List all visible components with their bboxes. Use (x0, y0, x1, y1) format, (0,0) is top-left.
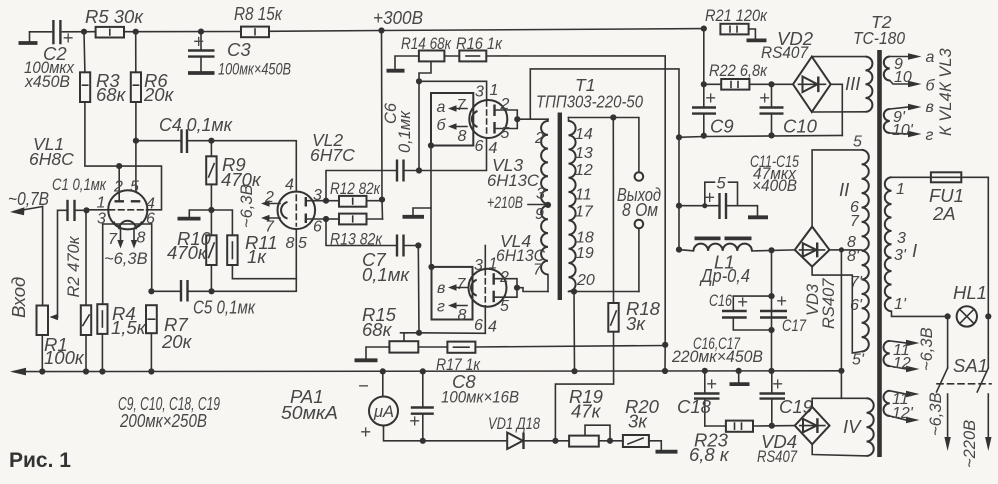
svg-text:RS407: RS407 (761, 44, 809, 62)
svg-text:7: 7 (457, 97, 467, 114)
svg-text:1: 1 (896, 181, 905, 198)
T2 winding I (885, 177, 892, 311)
svg-text:1: 1 (490, 82, 499, 99)
svg-text:68к: 68к (96, 84, 127, 105)
node (R22/C10/VD2) (768, 81, 774, 87)
T2 winding 9-10 (884, 57, 890, 81)
svg-text:100к: 100к (44, 347, 85, 368)
wire R6 to C4 node and VL1 pin5 (135, 102, 137, 191)
svg-text:RS407: RS407 (757, 448, 798, 466)
svg-text:68к: 68к (362, 319, 393, 340)
svg-text:+: + (705, 87, 716, 108)
wire secondary bottom pin20 (569, 291, 639, 293)
svg-text:10': 10' (892, 122, 914, 139)
cathode bus down (430, 146, 432, 267)
winding IV of T2 (867, 398, 874, 456)
svg-text:20к: 20к (161, 331, 193, 352)
svg-text:8: 8 (458, 307, 467, 324)
svg-text:ТС-180: ТС-180 (853, 28, 905, 48)
resistor R17 (447, 342, 475, 353)
svg-text:3': 3' (894, 247, 907, 264)
svg-text:III: III (845, 73, 860, 94)
heater box VL3 (431, 93, 473, 146)
capacitor C7 (396, 235, 398, 257)
svg-text:К VL3: К VL3 (937, 48, 955, 92)
wire +300V rail to R21 (382, 29, 704, 31)
svg-text:0,1мк: 0,1мк (396, 110, 414, 153)
svg-text:R2 470к: R2 470к (65, 235, 83, 297)
node (pin20/rail drop) (571, 288, 577, 294)
svg-text:Вход: Вход (8, 277, 29, 318)
wire secondary top to output (569, 118, 639, 173)
resistor R8 (241, 27, 269, 38)
node (C16 top) (768, 293, 774, 299)
svg-text:+: + (759, 87, 770, 108)
svg-text:7: 7 (457, 276, 467, 293)
svg-text:1,5к: 1,5к (111, 317, 147, 338)
svg-text:6: 6 (146, 211, 155, 228)
node (VL2 plate6/C7) (323, 216, 329, 222)
main rail (14, 370, 841, 373)
wire input down to R1 (42, 207, 44, 306)
heater box VL4 (432, 267, 473, 320)
T2 winding 11'-12' (884, 391, 890, 416)
capacitor C19 (771, 371, 773, 393)
svg-text:SA1: SA1 (953, 355, 988, 376)
svg-text:5: 5 (853, 134, 862, 151)
wire VL4 grid (419, 332, 485, 335)
node (VL3 grid top) (416, 78, 422, 84)
svg-text:б: б (437, 117, 447, 134)
svg-text:7: 7 (533, 262, 543, 279)
node (C16 bottom) (768, 327, 774, 333)
wire plate link to pin4 (119, 166, 161, 210)
wire VD4 top to rail and winding IV (812, 398, 866, 407)
wire R11 top (211, 210, 232, 235)
ground (R15) (355, 358, 378, 362)
VL1 cathode line (103, 223, 152, 225)
svg-text:−: − (358, 375, 369, 396)
resistor R18 (612, 118, 614, 304)
node (R18 top) (610, 114, 616, 120)
node (cathode bus VL3) (428, 142, 434, 148)
ground (R21 right) (749, 29, 756, 39)
wire C4 left (136, 140, 181, 142)
svg-text:+300В: +300В (373, 7, 423, 28)
svg-text:6: 6 (313, 219, 322, 236)
node (C2/R5/R3) (81, 29, 87, 35)
svg-text:а: а (437, 99, 446, 116)
ground (C2 left) (29, 32, 31, 42)
svg-text:RS407: RS407 (820, 278, 838, 329)
wire to ground (189, 210, 211, 217)
svg-text:6Н13С: 6Н13С (487, 172, 539, 190)
svg-text:+: + (360, 421, 371, 442)
rectifier VD2 (793, 57, 831, 112)
resistor R3 (83, 32, 86, 73)
resistor R21 (720, 24, 748, 35)
svg-text:220мк×450В: 220мк×450В (671, 348, 763, 366)
svg-text:R21 120к: R21 120к (705, 7, 768, 25)
svg-text:R12 82к: R12 82к (330, 180, 381, 198)
svg-text:С1 0,1мк: С1 0,1мк (52, 176, 107, 194)
svg-text:2: 2 (499, 269, 509, 286)
node (L1/C16) (768, 247, 774, 253)
resistor R22 (704, 83, 721, 85)
svg-text:6Н7С: 6Н7С (310, 145, 355, 165)
svg-text:5: 5 (501, 125, 510, 142)
svg-text:+: + (193, 31, 204, 52)
svg-text:С10: С10 (783, 116, 818, 137)
svg-text:1к: 1к (247, 246, 267, 267)
choke L1 (679, 250, 694, 251)
capacitors C11-C15 (679, 205, 719, 207)
svg-text:+: + (772, 373, 783, 394)
wire winding I bottom (892, 311, 948, 316)
svg-text:100мк×450В: 100мк×450В (218, 61, 291, 79)
svg-text:R5 30к: R5 30к (85, 6, 144, 27)
node (R12 right) (379, 197, 385, 203)
node +300V (378, 27, 384, 33)
svg-text:г: г (926, 127, 934, 144)
resistor R11 (227, 235, 237, 265)
diode VD1 (507, 433, 523, 450)
T2 core (877, 50, 882, 457)
svg-text:3к: 3к (626, 313, 646, 334)
winding III of T2 (812, 56, 866, 58)
node (C17 rail) (768, 368, 774, 374)
svg-text:R8 15к: R8 15к (234, 3, 283, 24)
wire R5 to C3 node (124, 31, 241, 33)
svg-text:1: 1 (97, 195, 106, 212)
VL2 heater arrows 2,7 (265, 203, 280, 205)
svg-text:HL1: HL1 (953, 282, 987, 303)
svg-text:С16: С16 (709, 292, 733, 310)
wire R14-R16 (444, 55, 459, 57)
svg-text:+: + (409, 410, 420, 431)
T1 secondary coil (568, 118, 570, 122)
svg-text:R22 6,8к: R22 6,8к (709, 62, 768, 80)
svg-text:С9: С9 (710, 116, 734, 137)
ground (R14 left) (395, 56, 419, 69)
fuse FU1 (892, 176, 931, 178)
svg-text:С18: С18 (677, 396, 712, 417)
wire C2 left (30, 31, 52, 33)
wire R3 to VL1 plate pin2 (85, 102, 119, 166)
svg-text:С5 0,1мк: С5 0,1мк (193, 297, 256, 318)
svg-text:1': 1' (894, 296, 907, 313)
svg-text:17: 17 (575, 204, 594, 221)
node (cathode bus VL4 box) (428, 264, 434, 270)
svg-text:С4 0,1мк: С4 0,1мк (159, 114, 233, 135)
wire R15-R17 (418, 346, 447, 348)
wire R21 node down to R22 (703, 29, 705, 85)
svg-text:+: + (776, 290, 787, 311)
node (C5/R7/cathode) (148, 288, 154, 294)
wire C5 left (151, 290, 180, 292)
capacitor C9 (703, 84, 705, 107)
svg-text:R16 1к: R16 1к (456, 35, 503, 53)
capacitor C5 (180, 280, 182, 302)
svg-text:5: 5 (500, 298, 509, 315)
node (R9 top) (208, 138, 214, 144)
svg-text:19: 19 (576, 245, 594, 262)
svg-text:+: + (706, 373, 717, 394)
svg-text:~220В: ~220В (961, 420, 979, 468)
svg-text:3: 3 (475, 84, 484, 101)
svg-text:6Н8С: 6Н8С (29, 149, 74, 169)
svg-text:С19: С19 (779, 396, 813, 417)
svg-text:I: I (912, 240, 917, 261)
svg-text:К VL4: К VL4 (937, 92, 955, 136)
capacitor C17 (760, 310, 787, 312)
capacitor C2 (52, 20, 54, 44)
lamp HL1 (957, 306, 977, 326)
resistor R16 (459, 51, 486, 62)
wire C5 right / R10 bottom / VL2 cathode (188, 265, 297, 291)
svg-text:50мкА: 50мкА (281, 402, 338, 423)
svg-text:IV: IV (843, 416, 862, 437)
resistor R23 (705, 425, 726, 427)
svg-text:2: 2 (264, 189, 274, 206)
svg-text:2: 2 (500, 96, 510, 113)
wire C16/C17 down from L1 node (771, 250, 773, 371)
T2 winding 11-12 (884, 341, 890, 366)
node (plate2 / grid4 link) (116, 163, 122, 169)
capacitor C1 (66, 200, 68, 221)
node (grid VL1 / R2) (83, 207, 89, 213)
svg-text:14: 14 (575, 126, 593, 143)
svg-text:18: 18 (576, 230, 594, 247)
resistor R4 (97, 304, 107, 334)
svg-text:Др-0,4: Др-0,4 (699, 265, 750, 286)
svg-text:2: 2 (534, 130, 544, 147)
svg-text:0,1мк: 0,1мк (362, 264, 410, 285)
node (C11 wire) (676, 203, 682, 209)
capacitor C18 (704, 371, 706, 393)
svg-text:5: 5 (298, 235, 307, 252)
meter PA1 (382, 371, 384, 396)
svg-text:R14 68к: R14 68к (401, 35, 452, 53)
wire C4 right to R9 / VL2 grid (187, 141, 296, 192)
T2 winding 9'-10' (884, 109, 890, 133)
resistor R9 (210, 141, 212, 157)
svg-text:100мк×16В: 100мк×16В (441, 389, 519, 407)
node (T1 center tap +210V) (545, 202, 551, 208)
svg-text:×400В: ×400В (752, 177, 797, 195)
wire VD2 right corner to minus bus (831, 84, 843, 135)
winding II of T2 (812, 150, 862, 227)
svg-text:12: 12 (893, 355, 911, 372)
svg-text:47к: 47к (571, 401, 602, 422)
node (C19/R23/VD4) (769, 423, 775, 429)
svg-text:+: + (704, 187, 715, 208)
node (VL2 plate3/C6) (323, 198, 329, 204)
output terminal bottom (635, 220, 644, 229)
wire R16 right to feedback vertical (486, 56, 665, 345)
svg-text:11: 11 (575, 187, 592, 204)
T1 primary bottom (pin9-7) (541, 206, 548, 275)
wire grid bottom to VL3 pin4 (419, 138, 487, 171)
resistor R5 (96, 27, 124, 38)
wire VD3 right corner to tap (830, 249, 842, 251)
output terminal top (635, 172, 644, 181)
svg-text:7: 7 (850, 213, 860, 230)
wire C7 right down to VL4 grid (404, 245, 419, 247)
wire C6 from VL2 plate3 (326, 171, 396, 201)
svg-text:6,8 к: 6,8 к (689, 444, 730, 465)
wire C6 right (404, 170, 420, 172)
capacitor C10 (771, 84, 773, 107)
svg-text:II: II (839, 179, 849, 200)
resistor R13 (326, 218, 339, 220)
svg-text:4: 4 (488, 319, 497, 336)
ground (rail chassis) (738, 371, 740, 382)
svg-text:С3: С3 (227, 39, 251, 60)
svg-text:3: 3 (97, 211, 106, 228)
VL2 plates (305, 197, 307, 207)
svg-text:х450В: х450В (24, 73, 70, 91)
svg-text:VD1 Д18: VD1 Д18 (488, 415, 541, 433)
svg-text:20к: 20к (143, 84, 175, 105)
svg-text:С17: С17 (782, 317, 807, 335)
node (R21/R22 drop) (701, 26, 707, 32)
resistor R15 tap (404, 333, 419, 341)
capacitor C3 (200, 32, 202, 50)
svg-text:3: 3 (897, 230, 906, 247)
wire R17 right to feedback node (475, 346, 665, 348)
svg-text:5': 5' (852, 352, 865, 369)
svg-text:6: 6 (475, 138, 484, 155)
node (R5/R6) (133, 29, 139, 35)
minus bus (C9/C10 bottoms) (679, 135, 842, 137)
svg-text:г: г (437, 299, 445, 316)
svg-text:5: 5 (717, 175, 727, 193)
node (C6/VL3 grid) (416, 167, 422, 173)
T1 core (558, 113, 562, 301)
svg-text:10: 10 (894, 69, 912, 86)
potentiometer R1 (37, 306, 49, 336)
rail junction dots (39, 368, 45, 374)
svg-text:4: 4 (489, 140, 498, 157)
node (C3) (198, 29, 204, 35)
resistor R7 (146, 305, 157, 333)
capacitor C8 (422, 371, 424, 407)
ground (C3) (188, 71, 215, 75)
ground (C11-C15) (748, 215, 768, 219)
wire +300V down to R12/R13 (382, 31, 383, 220)
resistor R10 (206, 235, 216, 265)
mains arrows (947, 394, 949, 440)
svg-text:3: 3 (474, 257, 483, 274)
wire R8 to +300V node (269, 30, 382, 33)
node (VD1/R19) (552, 438, 558, 444)
svg-text:+: + (737, 291, 748, 312)
svg-text:2: 2 (113, 179, 123, 196)
svg-text:9: 9 (535, 206, 544, 223)
resistor R12 (326, 200, 339, 202)
svg-text:20: 20 (576, 272, 595, 289)
resistor R20 (623, 435, 649, 447)
ground (R20) (649, 441, 661, 450)
svg-text:в: в (926, 99, 934, 116)
node (HL1 right) (985, 313, 991, 319)
svg-text:1: 1 (489, 256, 498, 273)
svg-text:8: 8 (137, 230, 146, 247)
wire VL3 plate over T1 (530, 69, 679, 137)
svg-text:7: 7 (108, 231, 118, 248)
svg-text:2А: 2А (932, 203, 956, 224)
capacitor C6 (396, 160, 398, 182)
svg-text:6: 6 (474, 317, 483, 334)
VL1 heater pins 7,8 (120, 230, 122, 241)
svg-text:4: 4 (285, 177, 294, 194)
svg-text:7: 7 (265, 219, 275, 236)
wire R14 tap to VL3 grid node (419, 61, 431, 170)
wire winding II tap 8/8' to rail (841, 250, 861, 371)
wire VL3 plate line down (678, 137, 680, 249)
resistor R14 (419, 51, 445, 62)
svg-text:3: 3 (536, 186, 545, 203)
svg-text:8 Ом: 8 Ом (622, 199, 658, 220)
svg-text:в: в (437, 280, 445, 297)
svg-text:12': 12' (892, 405, 914, 422)
rectifier VD3 (795, 227, 830, 267)
svg-text:5: 5 (130, 179, 139, 196)
wire R15 left to ground (366, 347, 389, 359)
wire C7 from VL2 plate6 (326, 219, 396, 246)
svg-text:б: б (926, 78, 936, 95)
wire VD3 bottom to winding II 5' (812, 267, 862, 353)
capacitor C16 (733, 296, 771, 310)
resistor R6 (135, 32, 137, 73)
node (L1 left) (676, 247, 682, 253)
resistor R2 (85, 210, 87, 305)
rectifier VD4 (795, 407, 830, 444)
svg-text:200мк×250В: 200мк×250В (119, 410, 207, 431)
svg-text:μА: μА (373, 403, 394, 421)
svg-text:3к: 3к (628, 411, 648, 432)
resistor R15 (389, 341, 418, 352)
svg-text:Рис. 1: Рис. 1 (9, 449, 71, 472)
wire grid top to VL3 pin1 (419, 81, 487, 100)
svg-text:12: 12 (575, 162, 593, 179)
node (feedback) (662, 342, 668, 348)
wire top rail C2 to R5 (63, 31, 96, 33)
wire FU1 to HL1 (961, 177, 988, 316)
capacitor C4 (180, 129, 182, 153)
svg-text:а: а (926, 49, 935, 66)
svg-text:~6,3В: ~6,3В (918, 327, 936, 371)
resistor R19 (569, 436, 599, 447)
svg-text:8: 8 (286, 235, 295, 252)
svg-text:13: 13 (575, 145, 593, 162)
node (R22/C9) (701, 81, 707, 87)
svg-text:470к: 470к (167, 242, 208, 263)
node (HL1 left) (945, 313, 951, 319)
svg-text:ТПП303-220-50: ТПП303-220-50 (536, 92, 643, 112)
ground (cathode) (413, 208, 431, 215)
node (R9/R10/R11/ground) (208, 207, 214, 213)
svg-text:~6,3В: ~6,3В (238, 184, 256, 228)
svg-text:+210В: +210В (487, 194, 523, 212)
wire VD4 bottom to winding IV bottom (812, 444, 866, 456)
svg-text:8: 8 (458, 128, 467, 145)
svg-text:~6,3В: ~6,3В (104, 250, 148, 268)
svg-text:~6,3В: ~6,3В (927, 392, 945, 436)
ground (R9/R10) (178, 217, 201, 221)
